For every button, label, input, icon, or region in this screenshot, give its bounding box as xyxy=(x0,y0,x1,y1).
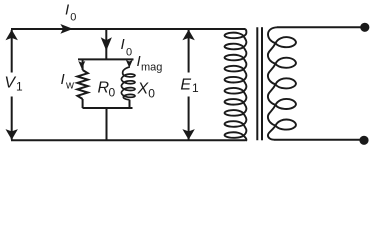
svg-text:w: w xyxy=(65,80,74,92)
svg-text:V: V xyxy=(4,75,16,92)
svg-text:0: 0 xyxy=(126,47,132,59)
svg-text:1: 1 xyxy=(192,81,199,95)
svg-text:I: I xyxy=(61,71,65,88)
svg-text:E: E xyxy=(180,76,191,93)
svg-text:I: I xyxy=(65,2,69,19)
svg-text:mag: mag xyxy=(141,62,162,74)
svg-text:0: 0 xyxy=(109,85,116,99)
svg-text:I: I xyxy=(121,36,125,53)
svg-text:0: 0 xyxy=(70,11,76,23)
svg-text:0: 0 xyxy=(148,86,155,100)
svg-text:1: 1 xyxy=(16,80,23,94)
